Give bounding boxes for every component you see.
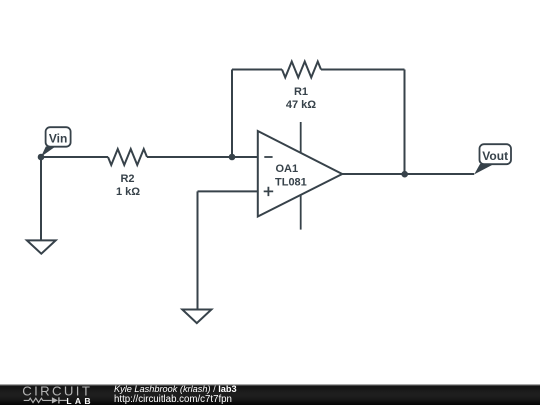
svg-text:R2: R2: [120, 173, 134, 185]
resistor R2: [108, 149, 147, 165]
wire feedback vertical up from node B: [231, 70, 233, 158]
node C dot (output junction): [401, 171, 408, 178]
svg-text:1 kΩ: 1 kΩ: [116, 186, 140, 198]
op-amp positive supply pin: [300, 122, 302, 153]
op-amp OA1 triangle: [258, 131, 342, 217]
op-amp negative supply pin: [300, 195, 302, 230]
op-amp inverting input minus sign: [264, 156, 272, 158]
logo diode: [52, 397, 58, 403]
node B dot (inverting input junction): [229, 154, 236, 161]
logo resistor: [24, 398, 52, 402]
wire non-inverting input horizontal: [198, 190, 258, 192]
wire R2 to op-amp inverting input: [147, 156, 258, 158]
ground (op-amp + input): [182, 310, 211, 324]
footer credit line 2: [114, 394, 232, 405]
footer credit line 1: [114, 384, 237, 395]
svg-text:Vout: Vout: [482, 149, 508, 163]
footer bar: [0, 384, 540, 405]
ground (Vin side): [27, 240, 56, 253]
svg-text:R1: R1: [294, 86, 308, 98]
wire Vin node down to ground: [40, 157, 42, 240]
node flag Vin: [41, 127, 71, 157]
svg-text:LAB: LAB: [66, 396, 93, 405]
svg-text:47 kΩ: 47 kΩ: [286, 99, 316, 111]
logo wire: [59, 399, 66, 401]
wire op-amp output to Vout: [342, 173, 474, 175]
CircuitLab logo: [0, 384, 110, 405]
resistor R1: [282, 62, 321, 78]
node flag Vout: [474, 144, 511, 174]
wire feedback top right segment: [321, 69, 405, 71]
svg-text:OA1: OA1: [276, 163, 299, 175]
node A dot (Vin): [38, 154, 45, 161]
svg-text:TL081: TL081: [275, 177, 307, 189]
wire feedback top left segment: [232, 69, 282, 71]
svg-text:Vin: Vin: [49, 132, 67, 146]
wire feedback vertical down to output: [404, 70, 406, 175]
wire non-inverting input vertical down to ground: [197, 191, 199, 309]
op-amp non-inverting input plus sign: [264, 187, 274, 196]
wire Vin node to R2: [41, 156, 108, 158]
